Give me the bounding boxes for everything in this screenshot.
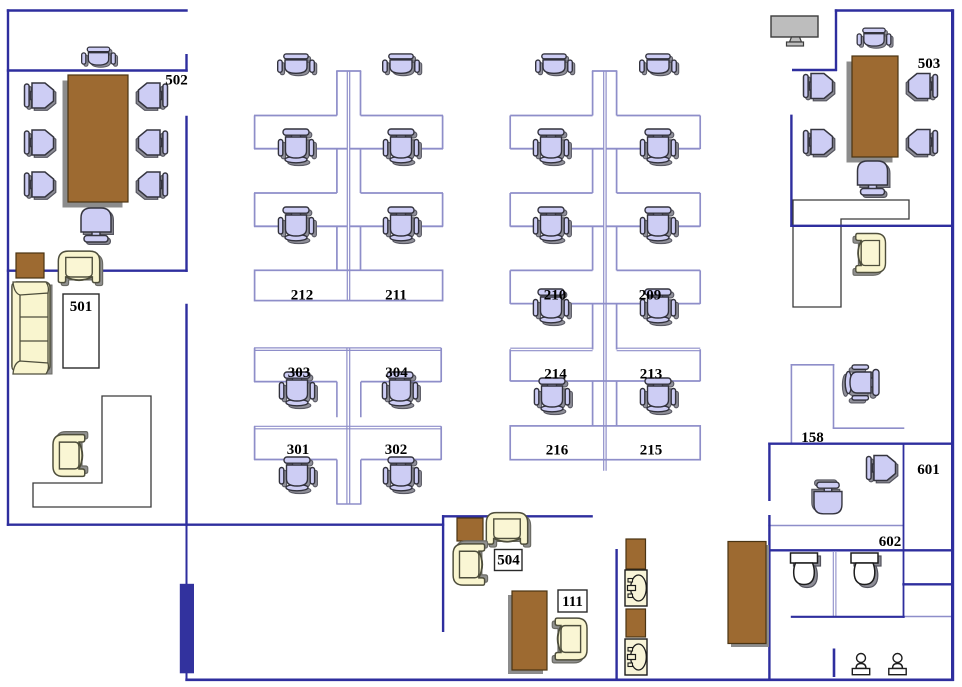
sink 2	[625, 639, 647, 675]
svg-text:502: 502	[165, 73, 188, 89]
wall right small room	[902, 583, 954, 585]
chair room 601 lower	[812, 480, 842, 514]
chair cubicle 214	[534, 378, 572, 415]
chair 503 right 2	[906, 130, 937, 157]
svg-text:504: 504	[497, 553, 520, 569]
svg-text:602: 602	[879, 534, 902, 550]
chair 502 left 1	[25, 83, 56, 110]
wall room502/501 divider	[7, 270, 188, 272]
cubicle block upper-left partitions	[254, 71, 443, 301]
wall outer bottom	[185, 678, 954, 681]
wall toilet stalls bottom	[791, 616, 905, 618]
conference table 502	[63, 75, 129, 208]
cubicle labels	[165, 56, 940, 550]
wall right of 501	[185, 304, 187, 526]
chair 502 bottom	[81, 208, 113, 244]
armchair 501	[58, 251, 102, 285]
svg-text:302: 302	[385, 442, 408, 458]
chair cubicle rowB left	[278, 207, 316, 244]
wall room503 left upper	[835, 9, 837, 71]
conference table 503	[847, 56, 899, 163]
chair lower-left room	[53, 432, 88, 477]
svg-text:209: 209	[639, 288, 662, 304]
desk 111	[508, 591, 547, 674]
svg-text:304: 304	[385, 365, 408, 381]
chair 503 left 2	[804, 130, 835, 157]
chair cubicle 302	[383, 457, 421, 494]
wall corridor sinks	[615, 549, 617, 681]
chair cubicle 210	[533, 289, 571, 326]
chair room 601 right	[867, 456, 898, 483]
sink cabinet 2	[626, 609, 646, 637]
chair 502 right 1	[136, 83, 167, 110]
couch 501	[12, 282, 52, 374]
toilet 1	[791, 553, 821, 588]
cubicle block lower-left partitions	[254, 348, 441, 504]
wall room601 top	[768, 443, 954, 445]
chair 503 top	[857, 28, 893, 48]
room label box 504	[495, 550, 523, 571]
chair room 158	[842, 365, 879, 403]
chair cubicle 301	[279, 457, 317, 494]
wall room602 bottom	[768, 549, 954, 551]
chair cubicle rowB right-block right	[640, 207, 678, 244]
free chair right-block 2	[640, 54, 679, 76]
room label box 111	[558, 590, 587, 612]
svg-text:210: 210	[544, 288, 567, 304]
svg-text:212: 212	[291, 288, 314, 304]
svg-text:301: 301	[287, 442, 310, 458]
toilet stall divider	[833, 552, 836, 617]
free chair left-block 1	[278, 54, 317, 76]
wall main lower	[7, 524, 444, 526]
free chair left-block 2	[383, 54, 422, 76]
wall room502 top	[7, 69, 188, 71]
chair 502 right 3	[136, 172, 167, 199]
wall below main left	[186, 524, 188, 681]
armchair 504 lower	[453, 541, 487, 585]
chair 502 top	[82, 47, 118, 67]
svg-text:216: 216	[546, 443, 569, 459]
wall outer top-left	[7, 9, 188, 11]
svg-text:303: 303	[288, 365, 311, 381]
cubicle block upper-right partitions	[510, 71, 700, 471]
monitor top-right	[771, 16, 818, 46]
chair cubicle rowB right-block left	[533, 207, 571, 244]
chair cubicle rowA right-block right	[640, 129, 678, 166]
svg-text:211: 211	[385, 288, 407, 304]
chair cubicle 304	[382, 372, 420, 409]
toilet 2	[851, 553, 881, 588]
chair cubicle 209	[640, 289, 678, 326]
chair 502 left 2	[25, 130, 56, 157]
chair cubicle rowA right-block left	[533, 129, 571, 166]
svg-text:158: 158	[801, 430, 824, 446]
wall outer top-right	[835, 9, 954, 11]
chair cubicle 303	[279, 372, 317, 409]
chair 503 desk	[853, 234, 886, 276]
wall room503 jog	[792, 69, 837, 71]
sink 1	[625, 570, 647, 606]
room 601 lower partition	[768, 525, 903, 527]
chair 503 right 1	[906, 74, 937, 101]
sink cabinet 1	[626, 539, 646, 569]
chair cubicle rowA right	[383, 129, 421, 166]
light wall bottom right	[904, 616, 954, 618]
chair 111	[552, 618, 587, 663]
wall outer left	[7, 9, 9, 526]
svg-text:111: 111	[562, 594, 583, 610]
svg-text:601: 601	[917, 462, 940, 478]
wall outer right	[951, 9, 954, 681]
wall room503 left lower	[790, 115, 792, 227]
chair 502 right 2	[136, 130, 167, 157]
wall room601 left	[768, 443, 770, 682]
brown side table 501	[16, 253, 44, 278]
person 2	[889, 654, 906, 675]
L-desk 503	[793, 200, 909, 307]
wall stub bottom	[833, 649, 836, 678]
tall cabinet	[728, 542, 769, 648]
wall room504 left	[442, 515, 444, 632]
chair cubicle rowA left	[278, 129, 316, 166]
wall stub right of 502	[185, 54, 187, 72]
wall room503 bottom redrawn over desk	[790, 225, 954, 227]
brown side table 504	[457, 518, 483, 541]
free chair right-block 1	[536, 54, 575, 76]
L-desk lower-left room	[33, 396, 151, 507]
chair 502 left 3	[25, 172, 56, 199]
chair 503 bottom	[858, 161, 890, 197]
svg-text:501: 501	[70, 299, 93, 315]
room 158 partitions	[791, 364, 905, 443]
room label box 501	[63, 294, 99, 368]
chair cubicle rowB right	[383, 207, 421, 244]
wall room504 top	[442, 515, 593, 517]
person 1	[852, 654, 869, 675]
svg-text:214: 214	[544, 367, 567, 383]
wall toilets right	[903, 443, 905, 618]
chair 503 left 1	[804, 74, 835, 101]
door bar	[180, 584, 194, 674]
armchair 504 upper	[486, 513, 530, 547]
svg-text:213: 213	[640, 367, 663, 383]
svg-text:503: 503	[918, 56, 941, 72]
svg-text:215: 215	[640, 443, 663, 459]
wall right of 502	[185, 116, 187, 272]
chair cubicle 213	[640, 378, 678, 415]
